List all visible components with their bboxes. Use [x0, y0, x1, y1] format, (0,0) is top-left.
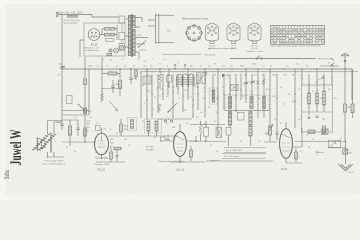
dial scale frame	[155, 14, 157, 44]
component grid: resistor Rn2	[110, 28, 114, 31]
svg-text:100: 100	[272, 96, 275, 98]
wire	[351, 69, 353, 100]
svg-text:Spannungswähler: Spannungswähler	[63, 22, 78, 24]
wire	[130, 69, 132, 76]
wire	[345, 142, 347, 165]
svg-text:0,1: 0,1	[206, 75, 209, 77]
svg-text:50: 50	[214, 64, 216, 66]
svg-text:20: 20	[160, 74, 162, 76]
coil block L2 L3 L4	[177, 74, 183, 87]
svg-text:50: 50	[208, 65, 210, 67]
wire	[331, 69, 333, 85]
svg-text:50: 50	[160, 141, 162, 143]
wire	[172, 74, 174, 118]
svg-text:0,1: 0,1	[96, 123, 99, 125]
svg-text:0,5: 0,5	[214, 121, 217, 123]
svg-text:50: 50	[166, 66, 168, 68]
wire	[308, 74, 310, 93]
wire	[84, 57, 86, 69]
svg-text:0,1: 0,1	[296, 64, 299, 66]
wire	[100, 34, 105, 36]
svg-text:Umst. a. permanentdyn. Lp.: Umst. a. permanentdyn. Lp.	[42, 162, 66, 165]
svg-text:Röhre: Röhre	[273, 26, 278, 29]
wire	[294, 69, 296, 128]
capacitor C10	[276, 132, 279, 134]
component grid: resistor Rn1	[105, 28, 110, 31]
svg-text:50: 50	[312, 139, 314, 141]
svg-text:30: 30	[258, 98, 260, 100]
svg-text:0,1: 0,1	[274, 119, 277, 121]
svg-text:50: 50	[178, 98, 180, 100]
svg-text:0,5: 0,5	[234, 74, 237, 76]
wire heater	[148, 19, 156, 21]
wire	[225, 110, 269, 112]
tube socket view AZ11	[186, 25, 201, 40]
switch arm	[79, 105, 87, 112]
svg-text:50: 50	[110, 60, 112, 62]
svg-text:100: 100	[143, 66, 146, 68]
svg-text:Pegelregler 1,2 MΩ: Pegelregler 1,2 MΩ	[94, 164, 110, 166]
component on x143-151	[143, 76, 151, 84]
wire	[257, 69, 259, 118]
svg-text:100: 100	[222, 66, 225, 68]
wire	[190, 124, 225, 126]
rectifier tube AZ11	[88, 29, 100, 41]
svg-text:0,1: 0,1	[286, 65, 289, 67]
svg-text:0,1: 0,1	[200, 66, 203, 68]
switch Sa	[332, 59, 335, 62]
resistor R1b	[83, 108, 86, 114]
winding L6b	[249, 112, 252, 126]
svg-text:30: 30	[216, 151, 218, 153]
svg-text:0,1: 0,1	[122, 59, 125, 61]
svg-text:0,1: 0,1	[163, 59, 166, 61]
svg-text:473 kHz: 473 kHz	[146, 147, 153, 149]
svg-text:(VCL 11): (VCL 11)	[251, 48, 258, 50]
IF transformer IF1	[128, 118, 137, 131]
wire antenna lead	[344, 56, 346, 96]
switch contacts	[157, 118, 192, 120]
svg-text:siehe Netzteil: siehe Netzteil	[204, 54, 216, 57]
component box left	[67, 96, 73, 104]
capacitor 4uF	[343, 149, 348, 154]
svg-text:30: 30	[204, 123, 206, 125]
svg-text:0,1: 0,1	[146, 75, 149, 77]
svg-text:gezeichnet: gezeichnet	[210, 159, 220, 162]
arrow stubs	[174, 64, 186, 69]
svg-text:0,1: 0,1	[154, 137, 157, 139]
svg-text:0,2: 0,2	[298, 119, 301, 121]
svg-text:0,1: 0,1	[152, 109, 155, 111]
winding L7	[263, 97, 266, 109]
capacitor row	[308, 116, 311, 118]
svg-text:50: 50	[142, 121, 144, 123]
capacitor C6	[116, 155, 119, 157]
svg-text:5000: 5000	[272, 74, 276, 76]
trimmer Ct1	[244, 82, 248, 84]
svg-text:0,1: 0,1	[300, 151, 303, 153]
tube V1 VCL11	[95, 133, 109, 155]
svg-text:100: 100	[244, 75, 247, 77]
svg-text:0,1: 0,1	[192, 105, 195, 107]
svg-text:6,3V: 6,3V	[137, 35, 142, 37]
svg-text:0,1: 0,1	[166, 123, 169, 125]
svg-text:0,1: 0,1	[148, 91, 151, 93]
coil La	[308, 93, 311, 104]
svg-text:Bandfilter: Bandfilter	[146, 149, 154, 152]
wire	[229, 74, 231, 118]
svg-text:4: 4	[103, 60, 104, 62]
svg-text:100: 100	[172, 127, 175, 129]
svg-text:0,5: 0,5	[116, 65, 119, 67]
svg-text:100: 100	[144, 61, 147, 63]
wire	[157, 74, 159, 112]
wire	[206, 160, 273, 162]
cathode resistor	[190, 150, 193, 157]
winding L6	[250, 97, 253, 109]
svg-text:Saba: Saba	[3, 170, 11, 179]
wire	[276, 74, 278, 128]
tuning capacitor CV	[197, 73, 201, 84]
wire	[197, 74, 199, 110]
svg-text:0,1: 0,1	[58, 75, 61, 77]
switch on bus	[331, 63, 335, 67]
tube V2 VY2	[174, 132, 187, 157]
svg-text:2M: 2M	[348, 107, 351, 109]
svg-text:0,1: 0,1	[334, 98, 337, 100]
svg-text:50: 50	[320, 98, 322, 100]
svg-text:Röhrenansicht auf Sockel: Röhrenansicht auf Sockel	[182, 17, 209, 20]
svg-text:100: 100	[228, 94, 231, 96]
tube socket view UCL11	[248, 23, 261, 41]
wire	[108, 135, 128, 137]
output transformer Tr2	[32, 134, 49, 151]
IF transformer IF2	[145, 119, 162, 133]
svg-text:47: 47	[317, 155, 319, 157]
svg-text:55 mA Entbrummer: 55 mA Entbrummer	[84, 49, 100, 52]
svg-text:50: 50	[154, 97, 156, 99]
svg-text:Spannungen gemessen gegen Chas: Spannungen gemessen gegen Chassis mit Rö…	[271, 45, 322, 48]
svg-text:20: 20	[133, 65, 135, 67]
svg-text:0,1: 0,1	[250, 91, 253, 93]
wire	[316, 69, 318, 93]
svg-text:50: 50	[116, 133, 118, 135]
wire	[96, 161, 125, 163]
wire mains	[58, 14, 92, 16]
svg-text:50: 50	[90, 117, 92, 119]
resistor R7	[120, 124, 123, 132]
svg-text:0,1: 0,1	[124, 66, 127, 68]
svg-text:VCL 11: VCL 11	[97, 169, 105, 172]
mains plug	[56, 12, 58, 14]
svg-text:0,2: 0,2	[230, 65, 233, 67]
resistor R6	[110, 152, 113, 159]
wire	[167, 74, 169, 95]
wire	[240, 74, 242, 100]
wire pair speaker feed	[62, 110, 89, 112]
wire	[119, 69, 121, 78]
svg-text:0,5: 0,5	[104, 129, 107, 131]
switch Sb	[332, 65, 335, 68]
switch arm 2	[109, 101, 118, 111]
svg-text:5000: 5000	[292, 101, 296, 103]
svg-text:5000: 5000	[88, 111, 92, 113]
svg-text:Netzsch.: Netzsch.	[140, 49, 147, 52]
capacitor C3	[129, 77, 132, 79]
capacitor Cx	[322, 76, 325, 78]
trimmer Ct2	[250, 81, 254, 83]
svg-text:0,5: 0,5	[172, 87, 175, 89]
svg-text:2. Heizung und Skalenlampenstr: 2. Heizung und Skalenlampenstromkreis	[162, 53, 202, 56]
svg-text:Kontakt 5 u. 6 ohne: Kontakt 5 u. 6 ohne	[247, 50, 263, 53]
svg-text:50: 50	[262, 75, 264, 77]
svg-text:0,1: 0,1	[74, 117, 77, 119]
resistor zigzag on x102	[101, 93, 104, 103]
tube socket view VCL11	[206, 23, 219, 41]
grid stopper components V2	[161, 137, 166, 141]
svg-text:0,1: 0,1	[306, 135, 309, 137]
wire	[323, 74, 325, 91]
wire	[182, 74, 184, 112]
component grid: resistor Rn3	[106, 39, 114, 42]
wire	[245, 69, 247, 103]
resistor R3	[118, 80, 121, 88]
svg-text:0,1: 0,1	[300, 75, 303, 77]
svg-text:50: 50	[216, 98, 218, 100]
svg-text:0,1: 0,1	[202, 98, 205, 100]
wire	[292, 146, 302, 148]
switch S1	[257, 56, 260, 59]
potentiometer P1	[269, 126, 272, 135]
wire	[177, 74, 179, 95]
cathode network	[295, 152, 298, 159]
svg-text:0,2: 0,2	[316, 151, 319, 153]
svg-text:gesehen von der Lötseite (unte: gesehen von der Lötseite (unten)	[208, 47, 236, 50]
winding L5	[228, 97, 231, 109]
svg-text:4702: 4702	[87, 121, 91, 123]
resistor R right	[351, 104, 354, 113]
svg-text:50: 50	[106, 66, 108, 68]
X-box	[231, 85, 239, 91]
resistor R4	[68, 126, 71, 135]
svg-text:30: 30	[142, 85, 144, 87]
wire	[190, 140, 226, 142]
voltage table	[271, 25, 325, 44]
svg-text:Pos. 47 VDE 1000: Pos. 47 VDE 1000	[226, 150, 242, 152]
resistor R1	[83, 79, 86, 85]
svg-text:100: 100	[330, 147, 333, 149]
svg-text:50: 50	[306, 66, 308, 68]
svg-text:0,1: 0,1	[262, 65, 265, 67]
wire	[235, 74, 237, 112]
svg-text:50: 50	[240, 141, 242, 143]
svg-text:6: 6	[178, 62, 179, 64]
svg-text:0,1: 0,1	[196, 117, 199, 119]
svg-text:0,1: 0,1	[184, 90, 187, 92]
wire main HT bus	[62, 68, 352, 70]
wire	[170, 161, 205, 163]
resistor hatched h1	[308, 130, 315, 133]
svg-text:100: 100	[110, 139, 113, 141]
wire output	[295, 141, 346, 143]
svg-text:50: 50	[200, 112, 202, 114]
svg-text:30: 30	[270, 66, 272, 68]
svg-text:Freischwinger 945 F: Freischwinger 945 F	[45, 159, 65, 162]
wire	[251, 74, 253, 103]
wire	[47, 152, 49, 157]
svg-text:50: 50	[308, 147, 310, 149]
wire	[96, 157, 108, 159]
dial lamp La1	[109, 49, 112, 52]
svg-text:0,2: 0,2	[266, 89, 269, 91]
wire	[269, 69, 271, 128]
svg-text:0,1: 0,1	[328, 63, 331, 65]
capacitor C2 5000	[111, 85, 114, 87]
resistor R8	[114, 147, 121, 150]
capacitor Ce	[216, 128, 222, 138]
svg-text:30: 30	[184, 110, 186, 112]
resistor R9 zigzag	[158, 73, 161, 82]
coil Lb	[316, 93, 319, 104]
svg-text:0,1: 0,1	[150, 65, 153, 67]
wire heater bus	[230, 58, 316, 60]
antenna	[341, 54, 349, 56]
svg-text:50: 50	[288, 94, 290, 96]
junction dots scattered	[146, 89, 147, 90]
svg-text:5000: 5000	[88, 66, 92, 68]
wire	[47, 121, 49, 134]
wire	[61, 69, 63, 122]
resistor R5	[84, 128, 87, 136]
wire	[192, 74, 194, 118]
arrow component	[222, 74, 226, 78]
svg-text:0,2: 0,2	[176, 103, 179, 105]
svg-text:20: 20	[138, 59, 140, 61]
dial lamp La2	[114, 48, 119, 53]
svg-text:5: 5	[144, 103, 145, 105]
power transformer Tr1	[128, 14, 135, 57]
svg-text:Wellenschalter in Stellung M: Wellenschalter in Stellung M	[158, 160, 184, 163]
wire	[62, 141, 96, 143]
svg-text:0,1: 0,1	[158, 64, 161, 66]
svg-text:0,3: 0,3	[234, 87, 237, 89]
svg-text:100: 100	[322, 119, 325, 121]
svg-text:0,2: 0,2	[284, 75, 287, 77]
wire	[128, 135, 178, 137]
svg-text:24 013: 24 013	[348, 172, 354, 174]
resistor zigzag small	[262, 79, 265, 85]
wire	[91, 15, 93, 18]
svg-text:0,1: 0,1	[254, 74, 257, 76]
component Cif	[238, 113, 245, 121]
resistor Ra	[323, 126, 326, 134]
resistor R-lamp	[107, 53, 112, 55]
svg-text:AZ 11: AZ 11	[91, 42, 98, 46]
svg-text:5000: 5000	[110, 142, 114, 144]
coil L1	[135, 71, 138, 77]
junctions on AVC bus	[151, 71, 152, 72]
wire	[301, 69, 303, 85]
svg-text:300: 300	[196, 87, 199, 89]
winding L6c	[249, 126, 252, 136]
svg-text:50: 50	[186, 123, 188, 125]
resistor on antenna lead	[344, 104, 347, 112]
svg-text:0,1: 0,1	[258, 141, 261, 143]
wire	[263, 74, 265, 118]
wire	[186, 140, 196, 142]
resistor Rd	[204, 128, 209, 137]
chassis box	[84, 23, 125, 56]
svg-text:0,1: 0,1	[210, 145, 213, 147]
svg-text:100: 100	[188, 75, 191, 77]
wire	[204, 69, 206, 118]
wire	[140, 72, 142, 118]
caption rule 1	[224, 147, 266, 149]
svg-text:0,1: 0,1	[87, 124, 90, 126]
resistor R2	[108, 72, 117, 75]
svg-text:30: 30	[66, 147, 68, 149]
svg-text:4000: 4000	[124, 129, 128, 131]
svg-text:0,1: 0,1	[74, 151, 77, 153]
wire	[302, 111, 332, 113]
coil Lc	[323, 91, 326, 105]
svg-text:5000: 5000	[57, 122, 61, 124]
fuse box	[119, 16, 125, 23]
svg-text:UCL 11: UCL 11	[176, 169, 185, 172]
svg-text:100: 100	[264, 133, 267, 135]
svg-text:50: 50	[160, 105, 162, 107]
wire	[229, 125, 231, 128]
capacitor C5	[76, 127, 79, 129]
antenna filter box	[302, 85, 333, 132]
wire	[101, 69, 103, 100]
wire	[187, 69, 189, 100]
tone switch cluster	[329, 141, 341, 148]
capacitor C4	[60, 123, 63, 125]
capacitor Cd	[199, 125, 202, 133]
svg-text:Pos. 15 1,5 k gepr.: Pos. 15 1,5 k gepr.	[224, 155, 240, 158]
X symbol	[256, 81, 260, 85]
svg-text:50: 50	[214, 74, 216, 76]
wire	[151, 74, 153, 118]
wire	[328, 147, 346, 149]
svg-text:0,1µF: 0,1µF	[124, 126, 130, 128]
tube V3 UCL11 output	[280, 129, 293, 159]
wire	[212, 74, 214, 100]
svg-text:UY 11: UY 11	[281, 168, 288, 171]
svg-text:10: 10	[190, 97, 192, 99]
svg-text:100: 100	[160, 89, 163, 91]
component grid: capacitor Cn2	[110, 33, 114, 36]
wire	[162, 74, 164, 100]
loudspeaker LS	[42, 140, 45, 148]
oscillator coil dashed	[210, 88, 218, 104]
svg-text:Netz ~ 110 · 125 · 220 V: Netz ~ 110 · 125 · 220 V	[58, 12, 83, 15]
wire	[217, 69, 219, 136]
resistor hatched h2	[322, 129, 329, 134]
svg-text:20: 20	[87, 130, 89, 132]
voltage selector label	[67, 15, 78, 17]
svg-text:100: 100	[124, 139, 127, 141]
tube socket view VY2	[227, 23, 240, 41]
svg-text:20: 20	[306, 98, 308, 100]
wire	[61, 15, 63, 70]
svg-text:5000: 5000	[252, 64, 256, 66]
lamp in box	[119, 45, 123, 49]
svg-text:Juwel W: Juwel W	[8, 130, 25, 166]
svg-text:0,1: 0,1	[312, 91, 315, 93]
wire	[223, 74, 225, 110]
